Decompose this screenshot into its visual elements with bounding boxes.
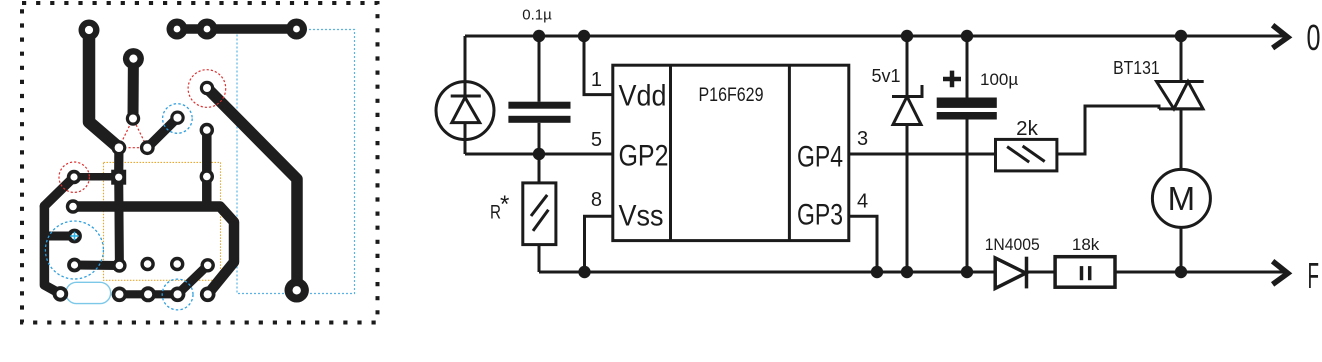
wire C1 top branch [538, 36, 541, 102]
zener diode 5v1 [892, 85, 922, 125]
resistor 2k [996, 139, 1057, 171]
svg-text:0: 0 [1307, 17, 1321, 58]
pad P18 [112, 258, 126, 272]
pad P13 [200, 123, 214, 137]
wire trace P28 down to P22 [44, 206, 60, 294]
pad P26 [200, 287, 216, 303]
wire bottom rail right [1115, 271, 1285, 274]
wire trace P25 to P21 [178, 265, 208, 294]
svg-text:4: 4 [857, 191, 868, 213]
wire cap100 bottom [966, 120, 969, 273]
annotation red triangle (under pads) [119, 119, 147, 148]
annotation red circle B [59, 162, 89, 192]
triac BT131 [1157, 82, 1204, 109]
svg-text:3: 3 [857, 128, 868, 150]
wire bottom rail mid [1027, 271, 1056, 274]
wire trace P14 to band [202, 177, 212, 207]
pad P8 [170, 111, 184, 125]
svg-text:*: * [500, 191, 509, 218]
photodiode D1 [436, 82, 494, 140]
IC U1 P16F629 [613, 65, 849, 240]
PCB pads [53, 19, 309, 303]
pad P17 [67, 258, 82, 273]
pad P3 [167, 19, 188, 40]
wire triac to motor [1180, 109, 1183, 169]
wire Vdd pin1 [584, 36, 613, 95]
pad P10 [140, 140, 155, 155]
node bottom zener [901, 266, 913, 278]
pad P1 [79, 20, 100, 41]
pad P12 square [111, 170, 126, 185]
wire trace P6 diagonal to P27 [207, 88, 297, 290]
svg-text:5v1: 5v1 [871, 66, 900, 86]
svg-text:18k: 18k [1072, 235, 1100, 254]
pad P24 [140, 286, 156, 302]
svg-text:Vss: Vss [619, 200, 664, 233]
svg-text:Vdd: Vdd [619, 80, 667, 113]
node bottom Vss [578, 266, 590, 278]
annotation blue circle C [163, 104, 193, 134]
svg-text:GP4: GP4 [797, 141, 843, 174]
capacitor C2 100u [937, 98, 997, 120]
wire bottom rail left [539, 271, 995, 274]
wire trace band P15 right and down to P26 [73, 207, 234, 295]
svg-text:1: 1 [591, 69, 602, 91]
wire zener bottom [906, 125, 909, 273]
diode 1N4005 [995, 257, 1026, 289]
annotation blue circle D [45, 221, 103, 279]
svg-text:5: 5 [591, 129, 602, 151]
wire R* bottom [538, 245, 541, 272]
wire GP4 pin3 [849, 153, 996, 156]
node GP2 [533, 148, 545, 160]
wire trace P9 to P12 [114, 148, 123, 177]
wire C1 bottom branch [538, 123, 541, 154]
node top Vdd [578, 30, 590, 42]
pad P25 [170, 287, 186, 303]
PCB annotations [45, 70, 225, 310]
pad P6 [200, 81, 214, 95]
wire top rail [465, 35, 1285, 38]
resistor R* [523, 183, 556, 245]
pad P19 [140, 257, 154, 271]
svg-text:2k: 2k [1016, 117, 1038, 140]
wire trace P13 to P14 [202, 130, 212, 177]
node bottom pin4 [871, 266, 883, 278]
motor M [1152, 169, 1210, 227]
node bottom motor [1175, 266, 1187, 278]
wire zener top [906, 36, 909, 97]
pad P22 [53, 286, 69, 302]
wire trace P1 down-bend [89, 30, 119, 148]
wire trace P11 to P28 [44, 177, 74, 206]
node top triac [1175, 30, 1187, 42]
pad P23 [112, 287, 128, 303]
wire trace P12 down to P18 [114, 177, 124, 266]
pad P7 [126, 111, 140, 125]
annotation blue circle E [162, 279, 193, 310]
annotation rounded rect blue [66, 282, 111, 303]
wire trace P2 down [128, 59, 139, 119]
node top cap100 [961, 30, 973, 42]
resistor 18k [1055, 257, 1115, 288]
pad P5 [286, 19, 307, 40]
pad P11 [67, 170, 81, 184]
wire photodiode bottom [464, 123, 467, 154]
svg-text:GP3: GP3 [797, 199, 843, 232]
wire trace bottom row [119, 290, 177, 298]
svg-text:GP2: GP2 [619, 140, 669, 173]
svg-text:0.1µ: 0.1µ [522, 7, 552, 24]
pad P15 [66, 199, 80, 213]
wire trace P11 to P12 [74, 173, 118, 181]
pad P20 [170, 257, 184, 271]
svg-text:100µ: 100µ [980, 70, 1018, 89]
capacitor C1 0.1u [508, 102, 570, 123]
wire trace P8 to P10 [147, 118, 177, 148]
annotation crosshair [70, 232, 79, 241]
wire GP3 pin4 [849, 216, 877, 272]
arrow F (bottom rail) [1273, 261, 1288, 284]
pad P2 [123, 48, 144, 69]
svg-text:P16F629: P16F629 [699, 85, 764, 106]
svg-text:M: M [1168, 180, 1196, 217]
wire triac top [1180, 36, 1183, 82]
wire trace P17 to P18 [75, 261, 120, 271]
svg-text:1N4005: 1N4005 [985, 235, 1040, 254]
node bottom cap100 [961, 266, 973, 278]
wire trace top row [177, 24, 297, 34]
wire motor bottom [1180, 227, 1183, 272]
pad P27 [285, 278, 309, 302]
wire GP2 rail [465, 153, 613, 156]
PCB board outline (dotted border) [22, 3, 378, 323]
wire trace P16 stub left [47, 232, 75, 241]
plus sign [943, 71, 961, 88]
svg-text:F: F [1308, 255, 1320, 296]
svg-text:8: 8 [591, 189, 602, 211]
wire cap100 top [966, 36, 969, 98]
svg-text:BT131: BT131 [1113, 58, 1160, 78]
annotation rectangle orange [104, 162, 221, 280]
pad P16 [67, 229, 82, 244]
wire R* top [538, 154, 541, 183]
pad P14 [200, 169, 214, 183]
wire photodiode top [464, 36, 467, 96]
pad P9 [112, 140, 127, 155]
annotation red circle A [188, 70, 226, 108]
wire Vss pin8 [585, 216, 613, 272]
node top C1 [533, 30, 545, 42]
wire 2k to gate [1057, 106, 1159, 154]
pad P21 [201, 258, 215, 272]
pad P4 [197, 19, 218, 40]
node top zener [901, 30, 913, 42]
annotation rectangle blue [237, 30, 355, 294]
arrow 0 (top rail) [1273, 25, 1288, 48]
